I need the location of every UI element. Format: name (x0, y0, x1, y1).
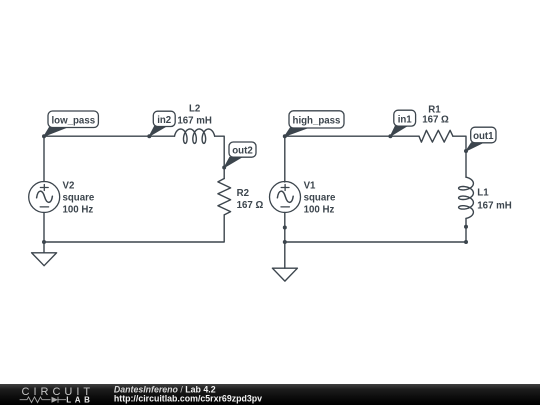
svg-text:low_pass: low_pass (51, 115, 95, 126)
svg-text:167 mH: 167 mH (477, 200, 511, 211)
svg-text:V1: V1 (304, 181, 316, 192)
node low_pass junction (42, 134, 46, 138)
svg-text:L1: L1 (477, 188, 489, 199)
wire V1 bottom (284, 213, 286, 243)
svg-text:out2: out2 (232, 146, 252, 157)
ground left (32, 253, 57, 266)
junction L1 bottom terminal (464, 225, 468, 229)
resistor R1 (419, 130, 453, 142)
ground right (272, 268, 297, 281)
flag high_pass (285, 111, 344, 136)
node in2 junction (147, 134, 151, 138)
inductor L2 (175, 129, 215, 143)
svg-text:167 mH: 167 mH (177, 115, 211, 126)
voltage source V1 (270, 182, 301, 213)
flag in2 (149, 111, 175, 136)
svg-text:out1: out1 (473, 131, 494, 142)
svg-text:LAB: LAB (66, 395, 93, 404)
node high_pass junction (283, 134, 287, 138)
svg-text:http://circuitlab.com/c5rxr69z: http://circuitlab.com/c5rxr69zpd3pv (114, 393, 262, 403)
junction right ground bus left (283, 240, 287, 244)
svg-text:R2: R2 (237, 188, 249, 199)
svg-text:167 Ω: 167 Ω (422, 115, 449, 126)
svg-text:in2: in2 (157, 115, 171, 126)
svg-text:square: square (63, 193, 95, 204)
inductor L1 (459, 177, 474, 218)
svg-text:167 Ω: 167 Ω (237, 200, 264, 211)
svg-text:L2: L2 (189, 104, 200, 115)
node out2 junction (222, 166, 226, 170)
resistor R2 (218, 179, 231, 215)
wire left circuit top (44, 136, 175, 181)
node in1 junction (388, 134, 392, 138)
wire R2 bottom to ground bus (44, 215, 224, 253)
wire R1 to corner down (453, 136, 466, 177)
labels (63, 104, 512, 216)
junction left ground bus (42, 240, 46, 244)
junction right ground bus right (464, 240, 468, 244)
junction V1 bottom terminal (283, 226, 287, 230)
wire L2 to corner and down (215, 136, 225, 178)
flag out1 (466, 127, 496, 151)
svg-text:high_pass: high_pass (293, 116, 341, 127)
node out1 junction (464, 149, 468, 153)
logo squiggle (20, 397, 51, 403)
svg-text:in1: in1 (398, 114, 413, 125)
voltage source V2 (29, 182, 60, 213)
flag low_pass (44, 111, 98, 136)
svg-text:square: square (304, 193, 336, 204)
svg-text:100 Hz: 100 Hz (304, 205, 335, 216)
wire right circuit top (285, 136, 419, 182)
svg-text:V2: V2 (63, 181, 75, 192)
wire V2 bottom (43, 213, 45, 243)
flag out2 (224, 142, 256, 168)
svg-text:100 Hz: 100 Hz (63, 205, 94, 216)
flag in1 (390, 110, 415, 136)
wire L1 bottom to bus (285, 218, 466, 268)
